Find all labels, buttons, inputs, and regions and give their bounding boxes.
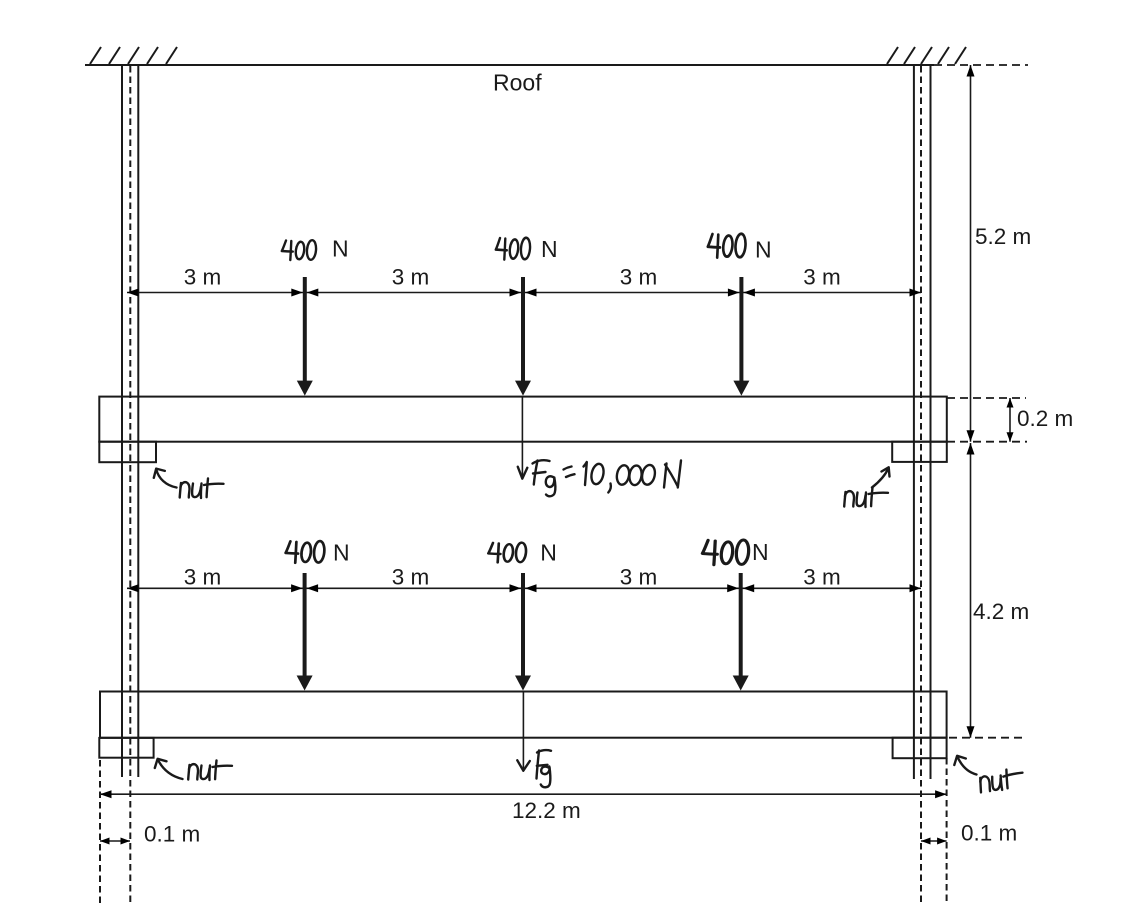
svg-text:0.2 m: 0.2 m bbox=[1017, 406, 1073, 431]
svg-text:N: N bbox=[755, 237, 772, 263]
svg-text:0.1 m: 0.1 m bbox=[961, 821, 1017, 846]
svg-text:4.2 m: 4.2 m bbox=[973, 599, 1029, 624]
svg-text:3 m: 3 m bbox=[803, 265, 841, 290]
svg-text:N: N bbox=[541, 236, 558, 262]
svg-text:5.2 m: 5.2 m bbox=[975, 224, 1031, 249]
svg-text:3 m: 3 m bbox=[184, 565, 222, 590]
svg-text:0.1 m: 0.1 m bbox=[144, 822, 200, 847]
svg-text:3 m: 3 m bbox=[392, 265, 430, 290]
svg-text:3 m: 3 m bbox=[184, 265, 222, 290]
svg-text:12.2 m: 12.2 m bbox=[512, 798, 581, 823]
svg-text:N: N bbox=[332, 236, 349, 262]
svg-text:3 m: 3 m bbox=[803, 565, 841, 590]
svg-text:N: N bbox=[333, 540, 350, 566]
svg-text:Roof: Roof bbox=[493, 70, 542, 96]
svg-text:3 m: 3 m bbox=[620, 265, 658, 290]
svg-text:N: N bbox=[752, 539, 769, 565]
svg-text:3 m: 3 m bbox=[620, 565, 658, 590]
svg-text:N: N bbox=[540, 540, 557, 566]
svg-text:3 m: 3 m bbox=[392, 565, 430, 590]
